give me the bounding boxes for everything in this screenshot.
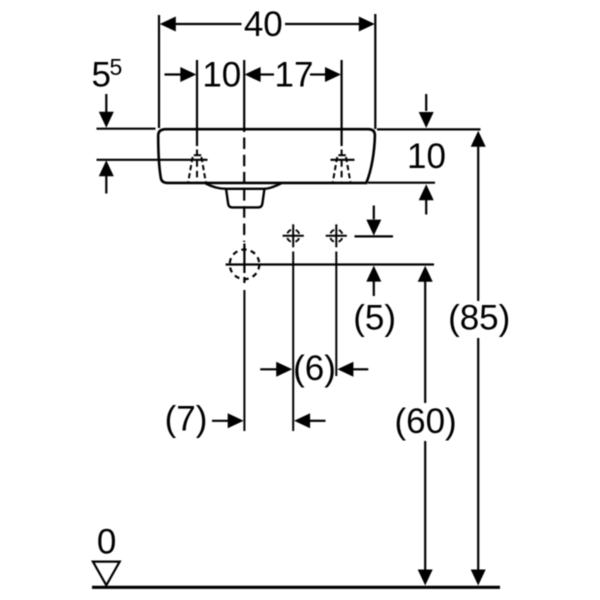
dim 17: stem after left arrow — [260, 73, 274, 75]
tap hole symbol right (dashed), center x=341.6 — [333, 150, 351, 183]
dim (85): bottom down arrowhead — [471, 570, 486, 586]
dim 40: right extension line — [374, 14, 376, 129]
dim (60): line upper part — [424, 281, 426, 403]
dim (6): left stem — [260, 368, 277, 370]
dim 10 right: bottom extension line — [368, 182, 435, 184]
dim 10 right: down arrowhead — [419, 112, 434, 128]
dim 40: left arrowhead — [160, 17, 176, 32]
dim (5): down arrowhead — [366, 220, 381, 236]
dim (7): left stem — [212, 420, 229, 422]
tap hole symbol left (dashed), center x=197 — [188, 150, 206, 183]
dim 40: dimension line right segment — [285, 23, 361, 25]
mounting cross left (293.2,235.8) — [283, 224, 304, 247]
svg-text:5: 5 — [110, 54, 123, 80]
dim 5.5: down arrowhead — [99, 112, 114, 128]
dim 10 right: up arrowhead — [419, 184, 434, 200]
dim (7): arrow pointing left at x=293.2 — [294, 413, 310, 428]
washbasin drain stub — [226, 189, 265, 208]
dim 10/17: extension line x=243.8 (drain axis upper) — [243, 60, 245, 132]
svg-text:(60): (60) — [394, 402, 456, 441]
svg-text:(5): (5) — [353, 299, 396, 338]
reference line tap deck level (left segment) — [97, 159, 208, 161]
dim 17: arrow pointing left at x=244 — [245, 67, 261, 82]
svg-text:17: 17 — [275, 56, 314, 95]
datum triangle (zero level) — [93, 562, 120, 586]
dim (6): arrow pointing right at x=293 — [276, 362, 292, 377]
reference line tap deck level (right segment) — [331, 159, 355, 161]
dim (5): up arrowhead — [366, 266, 381, 282]
dim (85): line lower part — [477, 338, 479, 570]
dim 5.5: up arrowhead — [99, 160, 114, 176]
dim (85): line upper part — [477, 146, 479, 301]
svg-text:(6): (6) — [293, 349, 336, 388]
dim 5.5: up arrow stem — [105, 176, 107, 194]
dim 5.5: down arrow stem — [105, 94, 107, 113]
dim (7): right stem — [310, 420, 326, 422]
drain centerline (dashed) from basin interior down to trap circle — [243, 138, 245, 243]
dim (7): arrow pointing right at x=244.5 — [228, 413, 244, 428]
dim 10 right: top extension line — [377, 128, 481, 130]
dim 10 right: down arrow stem — [425, 94, 427, 111]
dim (85): top up arrowhead — [471, 131, 486, 147]
mounting cross right (336.3,235.8) — [326, 224, 347, 247]
svg-text:5: 5 — [92, 56, 111, 95]
dim (60): bottom down arrowhead — [418, 570, 433, 586]
dim 10 right: up arrow stem — [425, 200, 427, 215]
svg-text:40: 40 — [244, 5, 283, 44]
dim (60): line lower part — [424, 441, 426, 570]
dim 40: right arrowhead — [359, 17, 375, 32]
short line at cross level (5 dim reference) — [355, 235, 394, 237]
reference line rim level (left) — [97, 128, 156, 130]
svg-text:(7): (7) — [165, 400, 208, 439]
dim 10/17: extension line x=197 (left tap axis) — [196, 60, 198, 146]
dim (5): down arrow stem — [373, 206, 375, 220]
dim 17: stem before right arrow — [310, 73, 326, 75]
washbasin outline (front view) — [158, 129, 375, 183]
dim 10/17: left arrow stem — [165, 73, 182, 75]
drain circle lower dash — [243, 277, 245, 283]
svg-text:10: 10 — [202, 56, 241, 95]
svg-text:10: 10 — [407, 137, 446, 176]
horizontal line drain level y=264.5 — [226, 263, 434, 265]
dim 40: left extension line — [158, 15, 160, 128]
dim 10/17: arrow pointing right at x=197 — [180, 67, 196, 82]
drain circle vertical crosshair — [243, 244, 245, 274]
dim (6): right stem — [353, 368, 369, 370]
dim (60): top up arrowhead — [418, 266, 433, 282]
bowl underside (lens-shaped recess) — [206, 183, 282, 188]
svg-text:0: 0 — [97, 522, 116, 561]
dim 10/17: extension line x=341.5 (right tap axis) — [341, 60, 343, 146]
ground line — [92, 586, 500, 589]
drain centerline extension down — [243, 290, 245, 431]
dim (5): up arrow stem — [373, 281, 375, 296]
extension line below left cross — [292, 252, 294, 432]
dim (6): arrow pointing left at x=336.3 — [337, 362, 353, 377]
drain trap circle (dashed) — [230, 249, 260, 279]
extension line below right cross — [335, 252, 337, 377]
dim 17: arrow pointing right at x=341.5 — [325, 67, 341, 82]
dim 40: dimension line left segment — [174, 23, 242, 25]
svg-text:(85): (85) — [448, 299, 510, 338]
